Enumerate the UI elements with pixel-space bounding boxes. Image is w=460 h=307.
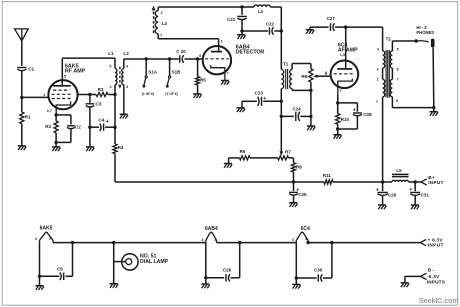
svg-text:3: 3 [49, 237, 51, 241]
svg-text:3: 3 [126, 85, 128, 89]
potentiometer R9 [302, 69, 314, 91]
svg-text:+: + [263, 96, 266, 102]
node L [292, 180, 295, 183]
node S1B [168, 57, 171, 60]
core T2 [386, 50, 389, 98]
node U lamp [112, 241, 115, 244]
svg-text:C24: C24 [292, 106, 301, 111]
wire node A to 6AK5 pin 1 [22, 93, 49, 97]
rail B+ right [333, 181, 392, 183]
node W [238, 241, 241, 244]
label S1B 1of6 [165, 92, 177, 96]
label lamp [140, 253, 169, 265]
svg-text:C22: C22 [266, 21, 275, 26]
capacitor C23 [242, 90, 281, 106]
ground C21 [237, 31, 245, 39]
svg-text:S1B: S1B [172, 70, 182, 75]
wire C5 to bus [72, 243, 74, 277]
node R5 [196, 57, 199, 60]
core L1 L2 slug [118, 67, 121, 89]
wire C1 to node A [21, 71, 23, 98]
svg-text:R4: R4 [118, 145, 124, 150]
svg-text:INPUTS: INPUTS [427, 280, 445, 285]
svg-text:INPUT: INPUT [428, 242, 444, 247]
svg-text:C30: C30 [314, 267, 323, 272]
svg-text:R11: R11 [323, 173, 332, 178]
label U2 [236, 44, 265, 55]
ground lamp [110, 284, 118, 288]
capacitor C2 [56, 115, 81, 142]
svg-text:7: 7 [397, 78, 399, 82]
svg-text:C3: C3 [95, 101, 101, 106]
svg-text:6AK5: 6AK5 [40, 225, 53, 231]
svg-text:L3: L3 [162, 21, 168, 26]
svg-text:S1A: S1A [148, 70, 158, 75]
svg-text:R6: R6 [240, 149, 246, 154]
label U1 [65, 64, 86, 75]
switch S1B [166, 59, 181, 88]
wire T1 primary top [280, 31, 282, 70]
capacitor C24 [281, 106, 311, 121]
node X [295, 276, 298, 279]
node E [113, 126, 116, 129]
wire 6AB4 plate to L3 [158, 34, 218, 39]
resistor R8 [291, 158, 302, 182]
svg-text:C 20: C 20 [176, 49, 186, 54]
resistor R5 [196, 59, 207, 94]
svg-text:B -: B - [428, 268, 435, 273]
svg-text:1: 1 [221, 39, 223, 43]
wire lamp down [113, 243, 115, 284]
svg-text:5: 5 [109, 65, 111, 69]
resistor R6 [229, 149, 278, 160]
svg-text:C25: C25 [298, 192, 307, 197]
ground R1 [18, 146, 26, 150]
node F C21 [240, 5, 243, 8]
svg-text:3: 3 [202, 238, 204, 242]
capacitor C20 [176, 49, 186, 63]
svg-text:L1: L1 [108, 51, 114, 56]
node G [240, 29, 243, 32]
wire heater 6AK5 left leg [39, 243, 41, 277]
wire 6AK5 pin4 to node B [78, 94, 90, 96]
svg-text:R9: R9 [302, 74, 308, 79]
svg-text:1,5: 1,5 [340, 53, 345, 57]
triode U2 6AB4 detector [203, 39, 231, 81]
node Y [306, 241, 333, 244]
ground C23 [237, 101, 245, 112]
svg-text:6C4: 6C4 [301, 226, 310, 232]
svg-text:6: 6 [325, 72, 327, 76]
watermark [419, 298, 459, 305]
wire T1 sec bottom [292, 89, 312, 93]
svg-text:2: 2 [377, 78, 379, 82]
wire T2 sec top to phones [392, 41, 416, 51]
wire T2 primary bottom to rail [382, 97, 384, 182]
wire R1 to ground [21, 124, 23, 146]
svg-text:R2: R2 [45, 124, 51, 129]
ground R5 [193, 94, 201, 98]
capacitor C21 [227, 7, 247, 31]
node R [432, 106, 435, 109]
svg-text:2: 2 [161, 11, 163, 15]
svg-text:R10: R10 [341, 117, 350, 122]
svg-text:(1 OF 6): (1 OF 6) [142, 92, 154, 96]
filament bus mid [217, 242, 297, 244]
node A [20, 96, 23, 99]
transformer T2 label [386, 36, 392, 41]
wire L5 to B+ [409, 181, 421, 183]
transformer T2 primary [376, 47, 385, 103]
terminal B- input [405, 268, 445, 285]
wire C3 to ground [88, 107, 91, 147]
svg-text:C4: C4 [98, 118, 104, 123]
svg-text:R3: R3 [98, 87, 104, 92]
svg-text:5: 5 [64, 75, 66, 79]
svg-text:4: 4 [377, 47, 379, 51]
svg-text:C2: C2 [75, 125, 81, 130]
ground 6C4 fil [292, 278, 300, 289]
svg-text:T1: T1 [283, 62, 289, 67]
wire C20 to 6AB4 [185, 54, 203, 59]
wire L2 top to grid line [124, 59, 179, 69]
capacitor C28 [338, 103, 372, 129]
svg-text:4: 4 [305, 237, 307, 241]
inductor L2 [122, 51, 129, 89]
inductor L1 [108, 51, 117, 94]
svg-text:R1: R1 [25, 115, 31, 120]
wire C27 to T2 pin4 [346, 27, 383, 51]
svg-text:(1 OF 6): (1 OF 6) [165, 92, 177, 96]
node S1A [145, 57, 148, 60]
resistor R11 [323, 173, 333, 184]
heater 6AK5 [35, 225, 53, 242]
svg-text:4: 4 [215, 238, 217, 242]
node C L1 bottom [113, 93, 116, 96]
wire L1 bottom to R4 [114, 95, 116, 145]
svg-text:6: 6 [126, 65, 128, 69]
capacitor C4 [90, 118, 115, 131]
resistor R2 [45, 115, 58, 142]
svg-text:+: + [376, 187, 379, 193]
svg-text:RF AMP: RF AMP [65, 69, 86, 75]
wire antenna to C1 [21, 41, 23, 66]
resistor R10 [336, 103, 350, 129]
ground phones [430, 108, 438, 116]
node S [38, 275, 41, 278]
node O [344, 25, 347, 28]
capacitor C29 [376, 182, 397, 205]
svg-text:C26: C26 [223, 268, 232, 273]
ground 6AB4 fil [201, 278, 209, 288]
wire phones down [432, 47, 435, 107]
svg-text:+: + [106, 119, 109, 125]
wire 6C4 pin3 down [295, 243, 297, 278]
svg-text:C23: C23 [255, 90, 264, 95]
svg-text:6: 6 [397, 68, 399, 72]
ground C27 [306, 27, 314, 34]
ground L2 [120, 114, 128, 118]
svg-text:3: 3 [292, 238, 294, 242]
switch S1A [143, 59, 158, 88]
capacitor C1 [17, 67, 34, 72]
filament bus left [53, 242, 206, 244]
transformer T1 secondary [290, 70, 292, 89]
terminal +6.3V input [420, 237, 444, 247]
wire 6AK5 plate to L1 top [62, 57, 115, 59]
resistor R1 [20, 112, 31, 124]
ground R9 C24 [307, 116, 315, 130]
resistor R3 [90, 87, 115, 97]
svg-text:DIAL LAMP: DIAL LAMP [140, 259, 169, 265]
ground R10 [333, 129, 341, 139]
svg-text:R7: R7 [285, 149, 291, 154]
ground 6AB4 cathode [221, 81, 229, 85]
node P [336, 101, 339, 104]
capacitor C5 [40, 267, 73, 280]
terminal B+ input [421, 175, 444, 185]
filament bus right [308, 242, 420, 244]
capacitor C30 [296, 267, 332, 281]
triode U1 6AK5 RF amp [47, 58, 79, 115]
svg-text:1: 1 [160, 33, 162, 37]
wire 6AB4 pin3 down [205, 243, 207, 278]
svg-text:SeekIC.com: SeekIC.com [419, 298, 459, 305]
node N C31 [414, 180, 417, 183]
wire T1 sec top to R9 [292, 64, 311, 70]
svg-text:6AB4: 6AB4 [205, 226, 218, 232]
wire T2 pin8 [392, 97, 433, 108]
capacitor C22 [242, 21, 281, 34]
phone jack [416, 39, 434, 48]
svg-text:7: 7 [339, 89, 341, 93]
svg-text:1: 1 [43, 93, 45, 97]
heater 6C4 [292, 226, 310, 243]
svg-text:C29: C29 [388, 192, 397, 197]
lamp I1 NO.51 [114, 254, 138, 270]
node D cathode [54, 113, 57, 116]
svg-text:C28: C28 [363, 112, 372, 117]
wire node O to 6C4 plate [345, 27, 347, 69]
node H T1 top [280, 29, 283, 32]
node Q [336, 127, 339, 130]
node K [309, 115, 312, 118]
svg-text:C27: C27 [327, 16, 336, 21]
svg-text:R5: R5 [200, 77, 206, 82]
node I C23 [280, 100, 283, 103]
svg-text:6: 6 [199, 54, 201, 58]
svg-text:7: 7 [227, 72, 229, 76]
transformer T2 secondary [390, 47, 398, 103]
transformer T1 primary [281, 62, 288, 89]
wire R2 C2 bottom [54, 141, 71, 144]
capacitor C31 [409, 182, 429, 205]
svg-text:2,7: 2,7 [47, 109, 52, 113]
svg-text:+: + [353, 108, 356, 114]
svg-text:C31: C31 [421, 192, 430, 197]
svg-text:4: 4 [110, 85, 112, 89]
svg-text:5: 5 [397, 47, 399, 51]
svg-text:L4: L4 [258, 9, 264, 14]
ground R2 [52, 142, 60, 151]
wire L2 bottom to ground [123, 85, 125, 115]
wire L3 top rail [158, 7, 242, 11]
ground heater 6AK5 [36, 276, 44, 290]
capacitor C25 [289, 182, 307, 203]
node T [71, 241, 74, 244]
ground C25 [289, 203, 297, 207]
wire 6C4 cathode [337, 95, 339, 103]
svg-text:4: 4 [35, 237, 37, 241]
resistor R4 [113, 144, 124, 154]
wire R4 to rail [114, 154, 116, 182]
inductor L3 [155, 11, 167, 38]
svg-text:T2: T2 [386, 36, 392, 41]
svg-text:PHONES: PHONES [416, 30, 434, 35]
wire T1 primary bottom [280, 89, 282, 102]
node B [88, 93, 91, 96]
ground C29 [378, 205, 386, 209]
wire node A to R1 [21, 97, 23, 112]
svg-text:DETECTOR: DETECTOR [236, 50, 265, 56]
svg-text:3: 3 [377, 68, 379, 72]
svg-text:C1: C1 [28, 67, 34, 72]
node J C24 [280, 115, 283, 118]
ground C3 [86, 147, 94, 151]
inductor L5 [392, 168, 409, 182]
svg-text:L5: L5 [396, 168, 402, 173]
ground B- [401, 283, 409, 287]
svg-text:L2: L2 [123, 51, 129, 56]
node phones [415, 39, 418, 42]
core T1 [286, 69, 288, 89]
capacitor C26 [206, 268, 240, 282]
ground C31 [411, 205, 419, 209]
antenna [15, 29, 29, 41]
core L3 adjustable [152, 6, 156, 35]
label U3 [338, 43, 358, 58]
node V [204, 276, 207, 279]
wire R9 bottom down [310, 90, 312, 116]
wire L4 down [280, 7, 282, 31]
svg-text:C21: C21 [227, 17, 236, 22]
svg-text:INPUT: INPUT [428, 180, 444, 185]
R9 wiper arrow [313, 71, 331, 78]
node M C29 [381, 180, 384, 183]
svg-text:R8: R8 [296, 165, 302, 170]
heater 6AB4 [202, 226, 219, 242]
svg-text:C5: C5 [57, 267, 63, 272]
capacitor C27 [310, 16, 346, 31]
ground R6 [224, 158, 232, 168]
svg-text:B+: B+ [428, 175, 435, 180]
wire C30 to bus [331, 243, 333, 278]
wire node J to R7 [280, 116, 284, 155]
triode U3 6C4 AF amp [325, 61, 358, 95]
wire C26 to bus [239, 243, 241, 278]
svg-text:1: 1 [376, 99, 378, 103]
svg-text:-6.3V: -6.3V [427, 274, 440, 279]
resistor R7 [278, 149, 294, 160]
inductor L4 [242, 5, 281, 14]
rail B+ [115, 181, 324, 183]
svg-text:+: + [409, 187, 412, 193]
wire C23 node down [280, 101, 282, 116]
label phones [416, 25, 434, 35]
label S1A 1of6 [142, 92, 154, 96]
capacitor C3 [86, 95, 102, 107]
svg-text:8: 8 [396, 99, 398, 103]
